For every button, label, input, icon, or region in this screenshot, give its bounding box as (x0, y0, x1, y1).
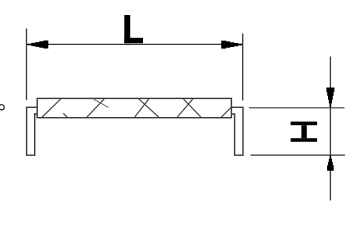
label L (124, 15, 143, 43)
right bracket (231, 107, 243, 155)
L right arrowhead (stepped) (221, 41, 242, 49)
L dimension extension line right (242, 34, 244, 101)
hatch line 1 (/) (42, 98, 62, 117)
H upper extension line (249, 107, 345, 109)
hatch line 9 (/) (221, 107, 232, 118)
hatch line 7 (/) (177, 98, 194, 117)
H top arrowhead (stepped, pointing down) (326, 88, 334, 108)
L dimension line (27, 43, 243, 45)
roller tube body (37, 98, 231, 117)
L dimension extension line left (26, 29, 28, 101)
hatch line 8 (\) (183, 98, 201, 117)
hatch line 5 (/) (134, 98, 149, 117)
hatch line 6 (\) (138, 98, 159, 117)
H dimension line (329, 57, 331, 201)
H lower extension line (251, 154, 346, 156)
left bracket (27, 107, 38, 155)
label H (rotated 90) (291, 122, 318, 142)
leader circle at left edge (0, 105, 4, 110)
hatch line 4 (shallow \, fading) (92, 98, 108, 107)
hatch tick 2 (\) (63, 113, 67, 117)
H bottom arrowhead (stepped, pointing up) (327, 156, 334, 171)
hatch line 3 (/) (86, 98, 104, 117)
L left arrowhead (stepped) (27, 41, 48, 49)
